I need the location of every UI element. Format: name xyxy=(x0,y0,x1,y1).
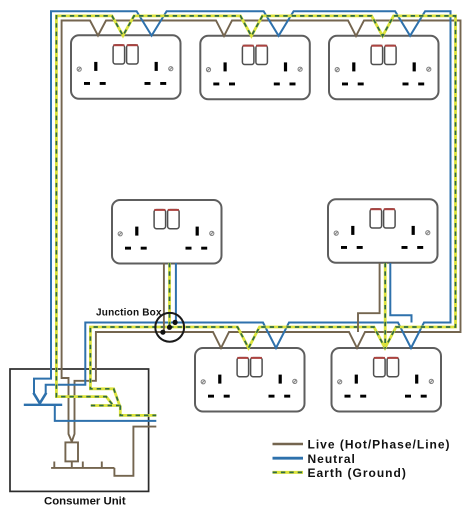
bus tick 2 xyxy=(82,462,84,468)
wire: neutral ring (blue) xyxy=(34,11,451,393)
bus tick 1 xyxy=(53,462,55,468)
junction node earth xyxy=(167,325,172,330)
socket S2 xyxy=(200,36,309,100)
wire: drop from S5 to S7 (earth) xyxy=(384,263,386,348)
fuse lead xyxy=(71,461,73,468)
earth tail out xyxy=(120,406,156,416)
socket S6 xyxy=(195,348,305,412)
wire: earth ring (green/yellow) xyxy=(56,16,455,404)
svg-text:Live (Hot/Phase/Line): Live (Hot/Phase/Line) xyxy=(308,438,451,452)
neutral arrowhead into bar (blue) xyxy=(33,393,46,404)
svg-text:Consumer Unit: Consumer Unit xyxy=(44,496,126,508)
legend neutral swatch xyxy=(273,457,304,460)
legend live swatch xyxy=(273,443,304,446)
junction node blue xyxy=(173,320,178,325)
consumer unit box xyxy=(10,369,149,491)
svg-text:Junction Box: Junction Box xyxy=(96,308,162,319)
wire: spur drop from S4 to junction box (blue) xyxy=(175,263,177,322)
wire: drop from S5 to S7 (brown) xyxy=(358,263,380,332)
wire: spur drop from S4 to junction box (earth) xyxy=(169,263,171,327)
socket S4 xyxy=(112,200,222,264)
earth bar in consumer unit xyxy=(91,405,121,407)
junction node brown xyxy=(160,330,165,335)
live tail out (brown) xyxy=(114,427,156,476)
svg-text:Neutral: Neutral xyxy=(308,452,356,466)
main fuse in consumer unit (brown) xyxy=(65,442,78,461)
neutral tail out (blue) xyxy=(55,405,157,421)
wire: live ring (brown) xyxy=(62,21,461,442)
legend earth swatch xyxy=(273,471,304,473)
neutral bar in consumer unit (blue) xyxy=(24,404,62,406)
socket S5 xyxy=(328,199,438,262)
socket S7 xyxy=(332,348,442,412)
junction box circle xyxy=(155,313,184,342)
distribution bus (brown) xyxy=(51,467,114,469)
wire: drop from S5 to S7 (blue) xyxy=(390,263,411,323)
wire: spur drop from S4 to junction box (brown) xyxy=(163,263,165,332)
bus tick 3 xyxy=(101,462,103,468)
socket S3 xyxy=(329,36,439,100)
svg-text:Earth (Ground): Earth (Ground) xyxy=(308,466,407,480)
socket S1 xyxy=(71,35,181,99)
